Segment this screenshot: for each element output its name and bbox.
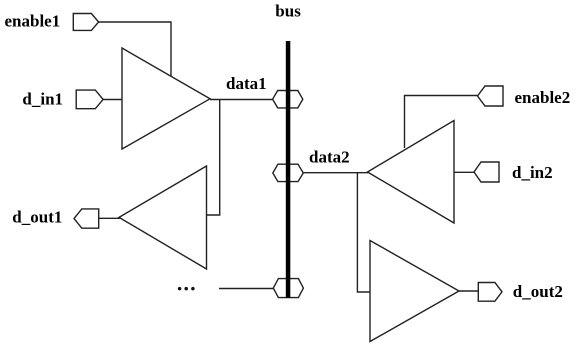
svg-text:d_in1: d_in1 xyxy=(22,90,63,109)
svg-text:enable2: enable2 xyxy=(515,88,571,107)
svg-text:d_out2: d_out2 xyxy=(513,282,563,301)
svg-text:data2: data2 xyxy=(309,148,350,167)
svg-text:data1: data1 xyxy=(226,74,267,93)
svg-text:d_in2: d_in2 xyxy=(512,163,553,182)
svg-text:bus: bus xyxy=(275,1,301,20)
svg-text:d_out1: d_out1 xyxy=(12,208,62,227)
svg-text:enable1: enable1 xyxy=(5,12,61,31)
